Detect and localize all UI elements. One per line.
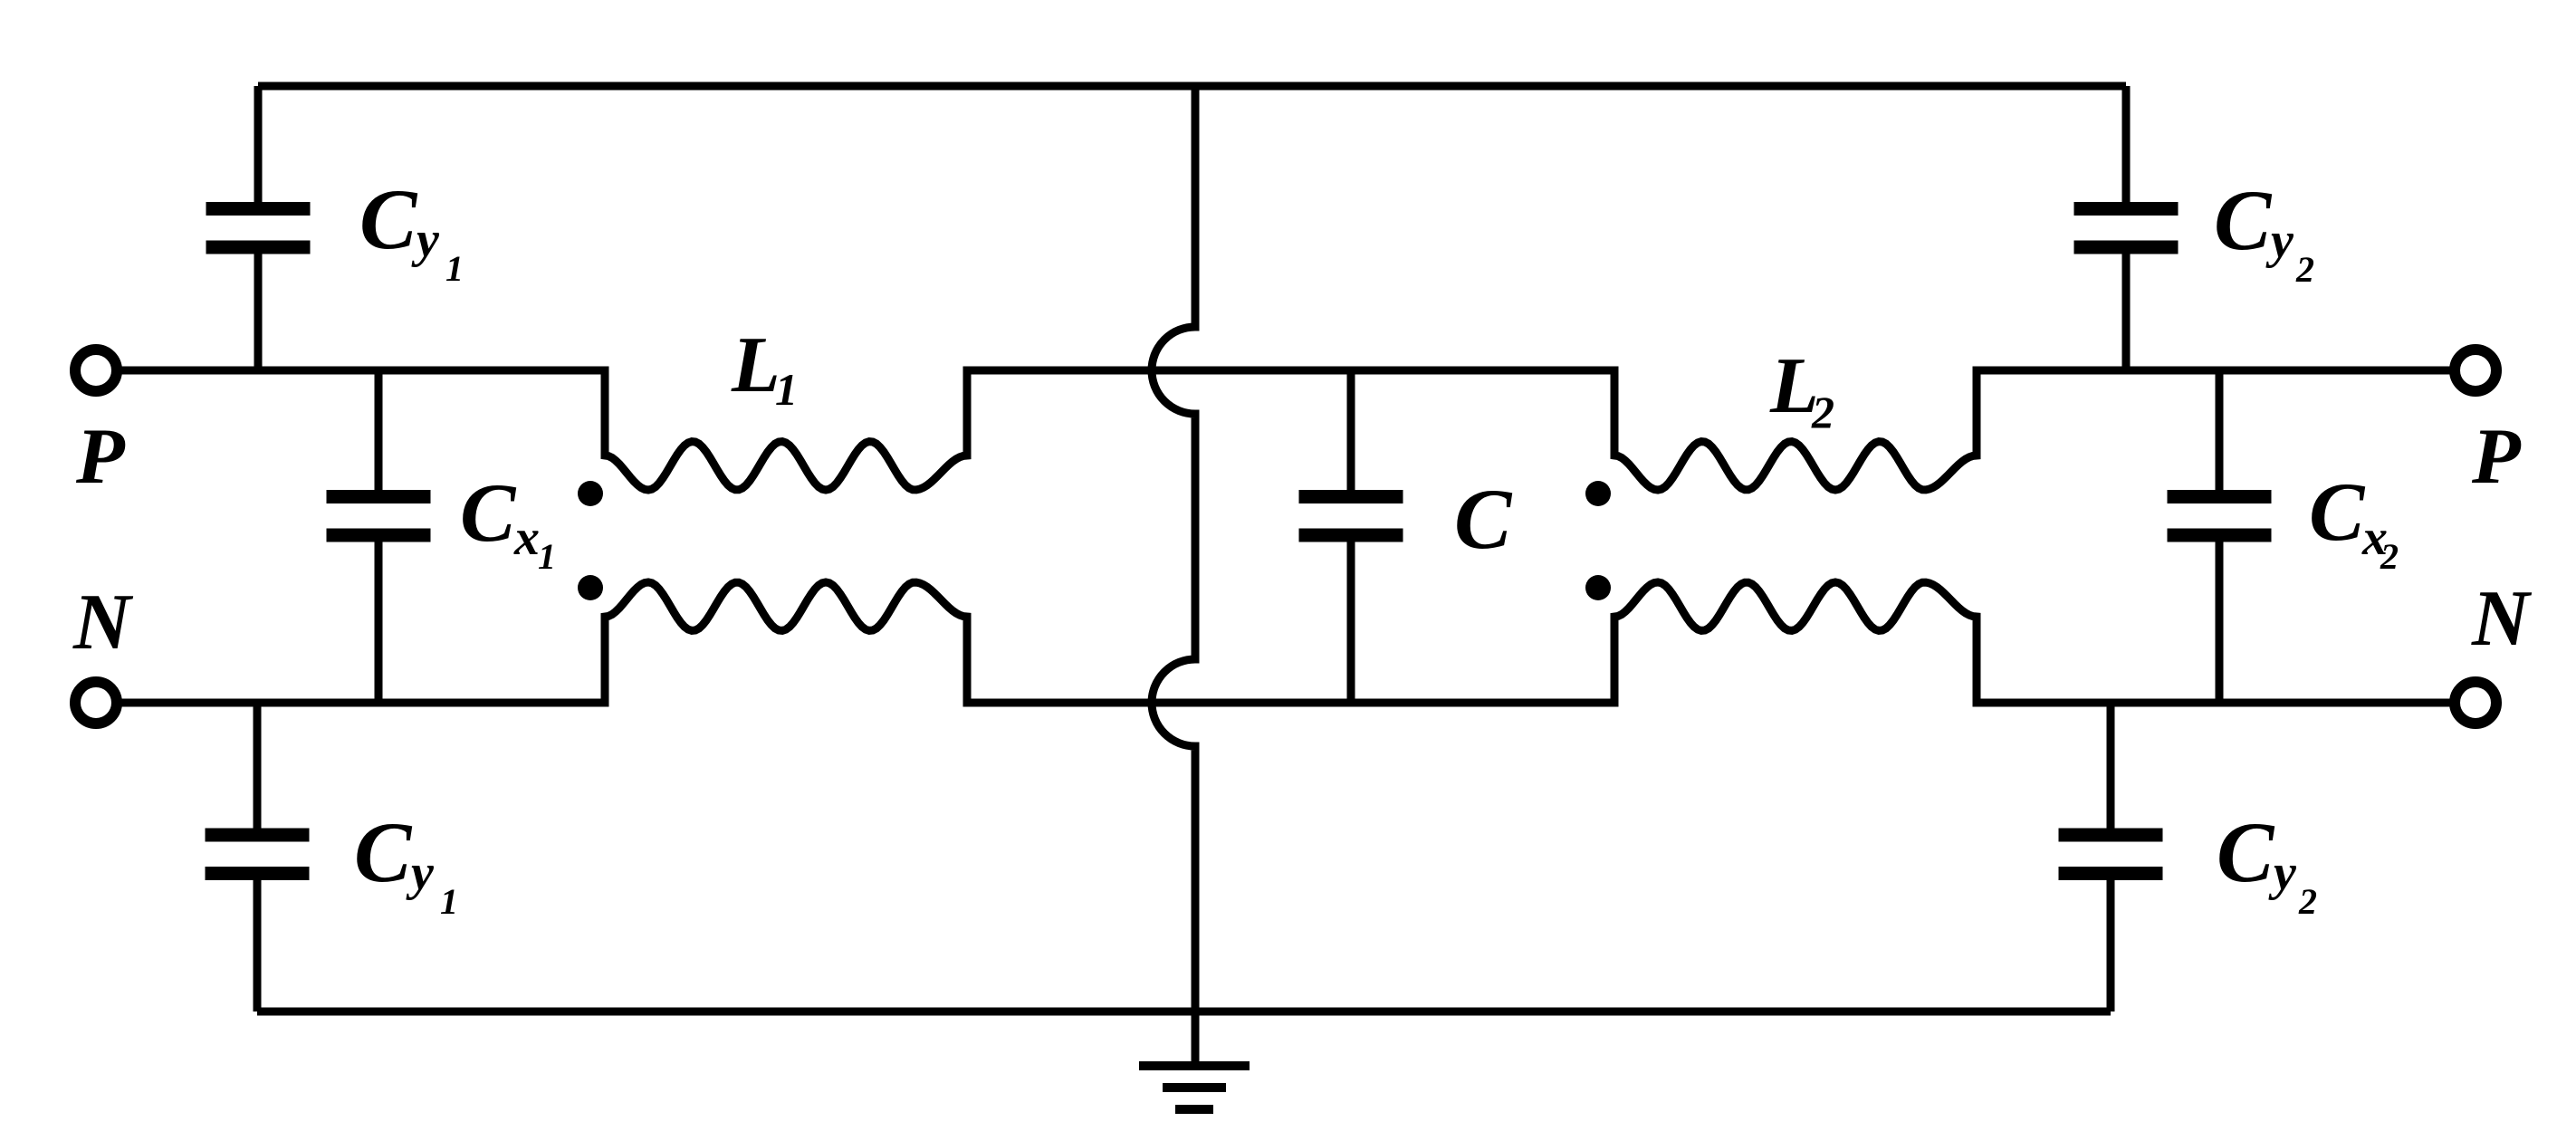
svg-text:C: C <box>2217 804 2275 900</box>
svg-text:1: 1 <box>440 881 458 922</box>
svg-text:C: C <box>2214 172 2273 268</box>
svg-text:L: L <box>731 321 780 409</box>
svg-text:C: C <box>460 466 517 559</box>
svg-text:2: 2 <box>2298 881 2317 922</box>
svg-text:x: x <box>513 510 540 566</box>
svg-text:2: 2 <box>2295 249 2314 290</box>
svg-text:P: P <box>75 413 126 501</box>
svg-text:2: 2 <box>1811 387 1834 437</box>
svg-text:C: C <box>2309 465 2366 558</box>
svg-text:C: C <box>1454 471 1513 567</box>
svg-text:1: 1 <box>775 364 798 415</box>
svg-text:N: N <box>2471 575 2533 663</box>
svg-text:C: C <box>354 804 413 900</box>
svg-text:N: N <box>72 579 134 666</box>
svg-text:1: 1 <box>538 536 556 577</box>
svg-text:1: 1 <box>445 248 464 289</box>
svg-text:2: 2 <box>2380 536 2399 577</box>
svg-text:C: C <box>359 171 418 267</box>
svg-text:P: P <box>2471 413 2522 501</box>
